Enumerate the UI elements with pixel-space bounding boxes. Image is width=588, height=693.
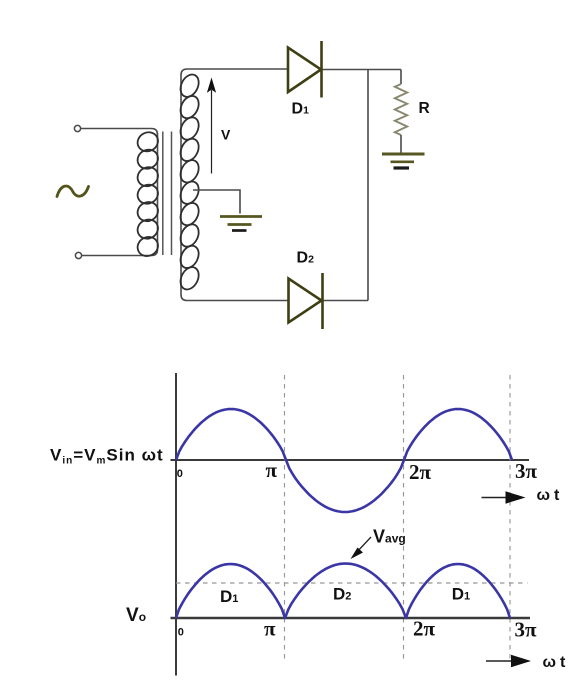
svg-text:Vavg: Vavg	[373, 527, 406, 547]
wire resistor top lead	[400, 70, 402, 85]
waveform vertical axis	[175, 373, 177, 676]
label Vo	[126, 605, 146, 626]
label R	[419, 100, 430, 117]
primary terminal (bottom)	[75, 252, 81, 258]
label pi (waveform 2)	[264, 617, 276, 641]
svg-text:D1: D1	[452, 584, 470, 603]
wire center tap	[193, 190, 240, 214]
svg-text:Vin=VmSin ωt: Vin=VmSin ωt	[50, 446, 164, 467]
label 3pi (waveform 2)	[515, 618, 538, 642]
svg-text:D2: D2	[297, 250, 315, 267]
wire D2 output	[324, 300, 369, 302]
label D1 (hump 3)	[452, 584, 470, 603]
label 2pi (waveform 2)	[413, 617, 436, 641]
label D1 (hump 1)	[220, 587, 238, 606]
svg-text:π: π	[264, 617, 276, 641]
dashed gridline 2pi	[403, 375, 405, 659]
dashed gridline 3pi	[509, 375, 511, 659]
wire resistor bottom lead	[400, 135, 402, 153]
svg-text:2π: 2π	[409, 460, 432, 484]
svg-text:D1: D1	[220, 587, 238, 606]
label Vin=VmSin wt	[50, 446, 164, 467]
svg-text:D2: D2	[333, 585, 351, 604]
input sine waveform	[176, 409, 512, 512]
svg-text:ωt: ωt	[537, 487, 561, 504]
label pi (waveform 1)	[266, 458, 278, 482]
label 2pi (waveform 1)	[409, 460, 432, 484]
svg-text:Vo: Vo	[126, 605, 146, 626]
arrow V (secondary voltage)	[207, 78, 216, 174]
label wt (waveform 2)	[543, 654, 567, 671]
label wt (waveform 1)	[537, 487, 561, 504]
wire secondary loop frame	[181, 69, 288, 301]
label D2 (hump 2)	[333, 585, 351, 604]
svg-text:3π: 3π	[515, 459, 538, 483]
svg-text:0: 0	[178, 627, 184, 639]
ac source V~	[57, 186, 89, 196]
svg-text:ωt: ωt	[543, 654, 567, 671]
wire D1 output to resistor	[323, 69, 402, 71]
transformer secondary coil	[177, 71, 202, 292]
label 0 (waveform 2)	[178, 627, 184, 639]
arrow to Vavg peak	[351, 537, 372, 559]
waveform 1 horizontal axis	[171, 459, 530, 461]
label D1	[292, 101, 310, 118]
primary terminal (top)	[74, 125, 80, 131]
axis arrow wt (waveform 2)	[486, 655, 531, 667]
dashed gridline pi	[284, 375, 286, 659]
svg-text:D1: D1	[292, 101, 310, 118]
axis arrow wt (waveform 1)	[482, 491, 526, 503]
rectified output waveform	[176, 564, 510, 619]
transformer primary coil	[134, 129, 161, 260]
resistor R	[395, 84, 407, 135]
label 3pi (waveform 1)	[515, 459, 538, 483]
transformer core	[163, 132, 172, 256]
ground (center tap)	[220, 217, 262, 231]
waveform 2 horizontal axis	[171, 617, 531, 619]
diode D2	[289, 273, 323, 329]
dashed average level line	[176, 582, 528, 584]
label D2	[297, 250, 315, 267]
wire output rail junction	[367, 70, 369, 301]
diode D1	[288, 41, 322, 98]
svg-text:R: R	[419, 100, 430, 117]
label Vavg	[373, 527, 406, 547]
svg-text:2π: 2π	[413, 617, 436, 641]
svg-text:3π: 3π	[515, 618, 538, 642]
svg-text:0: 0	[177, 468, 183, 480]
wire primary loop frame	[81, 129, 158, 256]
label 0 (waveform 1)	[177, 468, 183, 480]
svg-text:V: V	[221, 127, 231, 143]
svg-text:π: π	[266, 458, 278, 482]
ground (below resistor)	[382, 154, 425, 168]
label V	[221, 127, 231, 143]
